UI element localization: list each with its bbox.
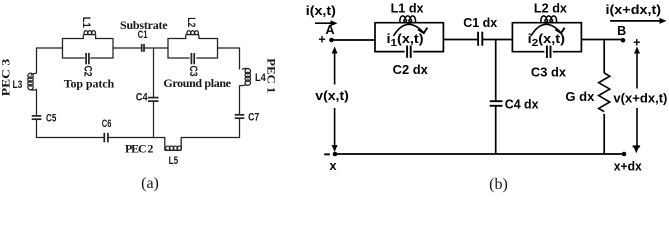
svg-text:Top patch: Top patch: [64, 77, 115, 91]
svg-text:A: A: [325, 23, 334, 37]
node x+dx: [622, 152, 627, 157]
capacitor C7: [235, 115, 245, 118]
svg-text:i(x+dx,t): i(x+dx,t): [606, 3, 662, 17]
capacitor C4 dx: [490, 101, 503, 106]
svg-text:i(x,t): i(x,t): [306, 4, 336, 18]
box section 2 (L2dx/C3dx): [512, 23, 581, 52]
svg-text:v(x+dx,t): v(x+dx,t): [613, 91, 667, 105]
wire C1 dx to box 2: [483, 39, 512, 41]
wire C5 to bottom rail: [37, 119, 104, 137]
svg-text:C3 dx: C3 dx: [531, 65, 566, 79]
tank rectangle Ground plane (L2/C3): [168, 35, 218, 58]
svg-text:C1 dx: C1 dx: [463, 16, 497, 30]
inductor L4: [240, 68, 251, 85]
arrowhead v(x,t) down: [332, 145, 338, 152]
inductor L1 dx: [400, 16, 416, 23]
svg-text:G dx: G dx: [565, 90, 594, 104]
minus sign left: [324, 153, 330, 155]
svg-text:C1: C1: [138, 29, 148, 41]
current arrow i(x+dx,t): [610, 20, 664, 22]
wire L5 to right branch: [181, 118, 239, 150]
svg-text:PEC 3: PEC 3: [0, 59, 13, 97]
current arrow i2: [531, 24, 565, 36]
arrowhead v(x+dx,t) down: [633, 146, 639, 153]
svg-text:i1(x,t): i1(x,t): [387, 32, 424, 49]
wire box2 to node B: [581, 39, 623, 41]
capacitor C5: [32, 116, 42, 119]
node A: [329, 38, 334, 43]
svg-text:C4: C4: [136, 92, 149, 104]
arrowhead v(x,t) up: [332, 47, 338, 54]
capacitor C1: [142, 44, 144, 52]
arrowhead i(x,t): [331, 20, 338, 26]
svg-text:+: +: [318, 33, 325, 47]
wire L3 to C5: [36, 90, 38, 116]
svg-text:PEC 1: PEC 1: [265, 58, 279, 93]
wire node A to box 1: [332, 39, 376, 41]
svg-text:x+dx: x+dx: [614, 159, 642, 173]
capacitor C2: [86, 53, 89, 64]
wire C4 to bottom rail: [153, 101, 155, 137]
current arrow i(x,t): [315, 22, 335, 24]
bottom rail x to x+dx: [335, 153, 624, 155]
wire C7 to L4: [239, 85, 241, 115]
capacitor C2 dx: [407, 46, 411, 58]
svg-text:(a): (a): [141, 175, 159, 192]
svg-text:C6: C6: [102, 118, 112, 130]
svg-text:L1: L1: [80, 17, 92, 28]
svg-text:B: B: [617, 24, 626, 38]
inductor L2 dx: [541, 16, 557, 23]
wire junction to C4 dx: [495, 40, 497, 102]
svg-text:C4 dx: C4 dx: [505, 98, 539, 112]
svg-text:L2 dx: L2 dx: [534, 1, 567, 15]
svg-text:C7: C7: [248, 112, 259, 124]
voltage arrow v(x+dx,t): [636, 49, 638, 146]
svg-text:PEC 2: PEC 2: [125, 142, 153, 156]
arrowhead v(x+dx,t) up: [634, 47, 640, 54]
capacitor C1 dx: [478, 32, 482, 46]
wire L4 to tank U2: [218, 48, 240, 70]
inductor L3: [28, 73, 37, 90]
svg-text:C5: C5: [46, 112, 56, 124]
svg-text:Ground plane: Ground plane: [163, 76, 231, 90]
current arrow i1: [394, 24, 428, 36]
wire C1 to tank U2: [145, 47, 169, 49]
svg-text:x: x: [330, 159, 337, 173]
voltage arrow v(x,t): [334, 49, 336, 149]
wire node B branch to conductance G: [603, 40, 605, 74]
wire tank U1 to C1: [113, 47, 141, 49]
capacitor C4: [148, 98, 159, 102]
capacitor C3 dx: [547, 46, 551, 58]
svg-text:C2: C2: [82, 66, 94, 77]
inductor L2: [187, 31, 199, 35]
tank rectangle Top patch (L1/C2): [63, 35, 114, 58]
capacitor C3: [191, 53, 194, 64]
resistor G dx: [599, 73, 610, 112]
svg-text:L2: L2: [185, 17, 197, 27]
wire C6 to L5 notch: [109, 138, 165, 151]
svg-text:L1 dx: L1 dx: [391, 2, 424, 16]
wire junction to C4: [153, 48, 155, 98]
svg-text:v(x,t): v(x,t): [315, 89, 349, 103]
wire box1 to C1 dx: [443, 39, 477, 41]
svg-text:L3: L3: [13, 79, 23, 91]
wire G dx to bottom rail: [603, 114, 605, 154]
inductor L5: [165, 146, 182, 150]
capacitor C6: [104, 133, 108, 143]
inductor L1: [84, 31, 96, 35]
node B: [621, 38, 626, 43]
box section 1 (L1dx/C2dx): [375, 23, 443, 52]
wire top stub left of tank U1: [37, 48, 63, 74]
arrowhead i(x+dx,t): [660, 18, 667, 24]
minus sign right: [633, 145, 641, 147]
svg-text:(b): (b): [489, 176, 508, 193]
node x: [333, 152, 338, 157]
svg-text:L5: L5: [169, 155, 179, 167]
svg-text:C2 dx: C2 dx: [393, 63, 428, 77]
wire C4 dx to bottom rail: [495, 106, 497, 154]
svg-text:+: +: [633, 36, 640, 50]
